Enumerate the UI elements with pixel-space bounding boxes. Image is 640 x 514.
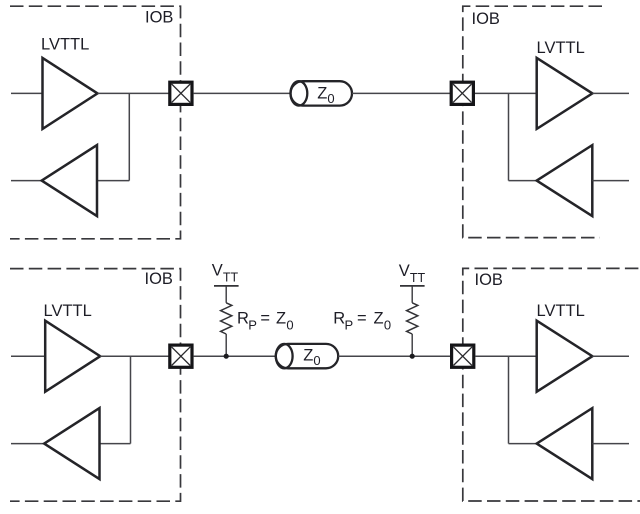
svg-text:RP=Z0: RP=Z0 [237, 310, 294, 333]
svg-text:LVTTL: LVTTL [537, 302, 585, 320]
IOB block box (top left) [10, 6, 181, 239]
transmission line Z0 (bottom) [276, 344, 338, 368]
resistor RP (right) [407, 303, 418, 334]
svg-text:LVTTL: LVTTL [41, 36, 89, 54]
wire (transmission line to pad, bottom right) [338, 355, 450, 357]
pad (top right IOB) [451, 82, 473, 104]
wire (receiver input from pad net, top left) [97, 180, 129, 182]
wire (pad to receiver, bottom right) [475, 355, 537, 357]
wire (resistor to line junction, right) [411, 334, 413, 356]
pad (bottom left IOB) [170, 345, 192, 367]
pad (top left IOB) [170, 82, 192, 104]
input buffer (bottom-left receiver triangle) [44, 408, 99, 479]
wire (VTT rail to resistor, left) [225, 286, 227, 303]
VTT power rail bar (right) [400, 285, 425, 287]
wire (connector to driver, top right) [509, 180, 538, 182]
wire (receiver output, bottom right) [592, 355, 629, 357]
wire (vertical connector, top left) [128, 93, 130, 180]
wire (driver output to pad, bottom left) [100, 355, 169, 357]
junction dot (left) [224, 354, 229, 359]
wire (driver output to pad, top left) [98, 92, 170, 94]
svg-text:IOB: IOB [145, 9, 173, 27]
wire (vertical connector, bottom right) [508, 356, 510, 443]
svg-text:VTT: VTT [212, 261, 239, 284]
junction dot (right) [410, 354, 415, 359]
wire (receiver output, top left) [11, 180, 43, 182]
VTT power rail bar (left) [214, 285, 239, 287]
output buffer (top-right driver triangle) [537, 145, 593, 216]
wire (resistor to line junction, left) [225, 334, 227, 356]
wire (connector to driver, bottom right) [509, 443, 538, 445]
wire (receiver output, bottom left) [11, 443, 45, 445]
svg-text:IOB: IOB [472, 10, 500, 28]
svg-text:IOB: IOB [145, 270, 173, 288]
wire (VTT rail to resistor, right) [411, 286, 413, 303]
pad (bottom right IOB) [452, 345, 474, 367]
wire (receiver output, top right) [592, 92, 629, 94]
input buffer (top-left receiver triangle) [42, 145, 97, 216]
IOB block box (bottom left) [10, 269, 181, 502]
svg-text:LVTTL: LVTTL [44, 302, 92, 320]
input buffer (top-right receiver triangle) [537, 58, 593, 129]
wire (driver input, bottom right) [592, 443, 629, 445]
output buffer (top-left driver triangle) [43, 58, 98, 129]
IOB block box (top right) [463, 6, 602, 237]
input buffer (bottom-right receiver triangle) [537, 321, 593, 392]
svg-text:RP=Z0: RP=Z0 [333, 310, 391, 333]
resistor RP (left) [221, 303, 232, 334]
wire (pad to transmission line, bottom) [194, 355, 277, 357]
wire (receiver input from pad net, bottom left) [100, 443, 131, 445]
wire (driver input, top right) [592, 180, 629, 182]
output buffer (bottom-right driver triangle) [537, 408, 593, 479]
wire (transmission line to pad, top right) [352, 92, 450, 94]
wire (vertical connector, top right) [508, 93, 510, 180]
wire (pad to transmission line, top) [194, 92, 291, 94]
wire (driver input, top left) [11, 92, 43, 94]
wire (vertical connector, bottom left) [130, 356, 132, 443]
output buffer (bottom-left driver triangle) [45, 321, 100, 392]
svg-text:IOB: IOB [475, 271, 503, 289]
svg-text:VTT: VTT [399, 262, 426, 285]
wire (driver input, bottom left) [11, 355, 46, 357]
svg-text:LVTTL: LVTTL [537, 39, 585, 57]
IOB block box (bottom right) [463, 268, 640, 501]
transmission line Z0 (top) [291, 81, 353, 105]
wire (pad to receiver, top right) [475, 92, 537, 94]
